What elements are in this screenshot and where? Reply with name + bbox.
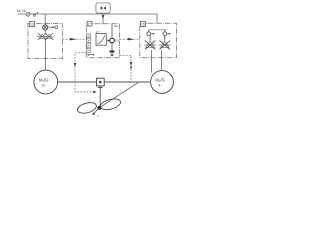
svg-text:3~: 3~ <box>42 82 47 87</box>
motor/generator M1/G circle <box>34 70 58 94</box>
fuse F1 on bus <box>26 12 30 16</box>
battery cell symbol X2 <box>44 33 54 40</box>
main DC bus wire <box>18 14 157 23</box>
characteristic-curve square inside C <box>96 34 106 46</box>
motor/generator M2/G circle <box>151 71 174 94</box>
arrow from pump 2 <box>167 33 169 35</box>
battery cell symbol X1 <box>37 33 47 40</box>
label square 13 <box>29 21 34 26</box>
motor feed line inside C <box>111 24 113 51</box>
dashed control link C to E <box>120 38 140 40</box>
wire sensor to cells with arrowhead <box>44 30 46 33</box>
wire from cells down to motor M1/G <box>45 40 47 70</box>
svg-text:12a: 12a <box>113 24 118 28</box>
converter box C (middle dashed box) <box>86 24 119 58</box>
small module squares on left edge of C <box>87 34 91 53</box>
cell symbol X2 in E <box>159 36 171 50</box>
label 7 leader at propeller <box>94 108 99 113</box>
diagonal drive shaft <box>101 82 139 107</box>
sensor circle on battery box top <box>43 25 48 30</box>
wire bus drop to battery box <box>44 14 46 25</box>
wire from M box down to converter C <box>102 13 104 24</box>
small left arrow at bottom-left inside C <box>89 54 93 56</box>
propeller left blade <box>76 101 97 115</box>
cell symbol X1 in E <box>144 36 156 50</box>
shaft coupling <box>98 86 103 88</box>
arrow with small circle right of sensor <box>48 26 57 29</box>
arrowhead on link <box>128 38 135 40</box>
svg-text:17b: 17b <box>115 39 120 43</box>
arrowhead pointing at circle <box>108 39 110 41</box>
shaft from M1/G to gearbox <box>58 81 97 83</box>
pump circle 2 in E <box>163 32 167 36</box>
propeller right blade <box>99 97 122 112</box>
gearbox A <box>97 78 105 86</box>
dashed control line left from C with down arrow <box>75 53 93 92</box>
pump circle 1 in E <box>147 32 151 36</box>
propeller shaft down <box>99 86 101 107</box>
label square 15 <box>140 21 145 26</box>
svg-text:1a 1b: 1a 1b <box>17 9 26 13</box>
propeller hub <box>97 106 101 110</box>
label square C <box>87 21 92 26</box>
circle component on line <box>110 38 115 43</box>
arrowhead on link <box>70 38 77 40</box>
switch S1 on bus <box>33 12 38 17</box>
svg-text:15: 15 <box>141 23 145 27</box>
dashed control line right from C with down arrow <box>120 55 131 81</box>
svg-text:3~: 3~ <box>158 82 163 87</box>
wires from E down to motor M2/G <box>151 50 153 73</box>
arrowhead into box C <box>102 15 105 19</box>
arrow from pump 1 <box>151 33 153 35</box>
energy box E (right dashed box) <box>140 23 177 58</box>
control unit M box <box>96 3 110 13</box>
svg-text:7: 7 <box>97 114 99 118</box>
svg-text:13: 13 <box>30 23 34 27</box>
M box glyph (bowtie) <box>101 6 106 10</box>
svg-text:17·⁻: 17·⁻ <box>96 30 102 34</box>
terminal block at bottom of line <box>110 50 115 52</box>
entry wire split inside E <box>149 30 167 32</box>
shaft from gearbox to M2/G <box>104 81 151 83</box>
curve inside <box>97 35 105 44</box>
dashed control link B to C <box>62 38 86 40</box>
battery box B (left dashed box) <box>28 24 62 59</box>
